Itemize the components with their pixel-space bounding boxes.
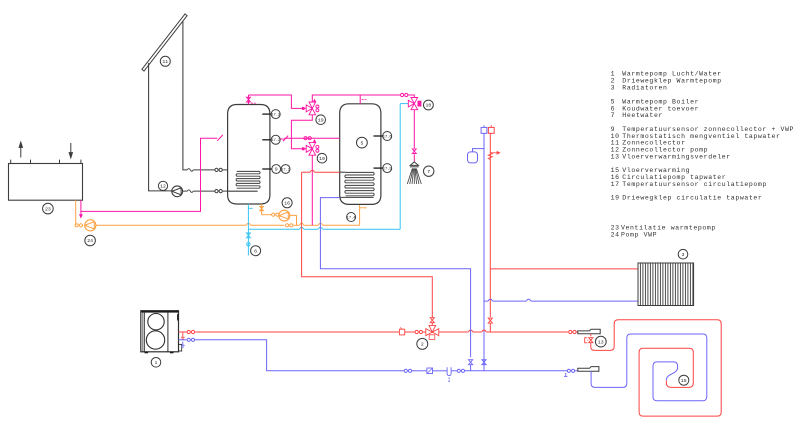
flow arrow below VWP tee bbox=[80, 211, 82, 215]
safety valve on red riser bbox=[488, 152, 492, 160]
sensor 17.3 stub bbox=[262, 113, 271, 115]
shut-off valve pair on solar return bbox=[215, 190, 218, 193]
label 1 bbox=[151, 358, 161, 368]
feet bbox=[145, 352, 149, 354]
svg-text:1: 1 bbox=[155, 360, 158, 366]
radiator 3 bbox=[638, 263, 694, 306]
svg-text:Temperatuursensor circulatiepo: Temperatuursensor circulatiepomp bbox=[622, 181, 767, 188]
label 7 bbox=[424, 166, 434, 176]
svg-text:17.1: 17.1 bbox=[281, 168, 291, 172]
valve pair before floor manifold (return) bbox=[567, 369, 570, 372]
wire VWP warm line (pink) from box to tank 1 bbox=[81, 138, 217, 211]
svg-text:13: 13 bbox=[611, 154, 620, 161]
connection box bbox=[179, 344, 182, 351]
svg-text:24: 24 bbox=[611, 231, 620, 238]
expansion vessel bbox=[468, 152, 478, 163]
label 6 bbox=[251, 246, 261, 256]
valve circle on cold water entry bbox=[247, 243, 250, 246]
blue expansion riser cap bbox=[481, 127, 487, 133]
svg-text:9: 9 bbox=[275, 167, 278, 173]
svg-text:23: 23 bbox=[45, 206, 51, 212]
wire return main to manifold bbox=[195, 340, 404, 371]
valve pair before three-way valve 2 bbox=[415, 330, 418, 333]
wire radiator return (blue) with hops bbox=[484, 300, 488, 302]
wire hot tap water top line from tank 1 bbox=[249, 95, 306, 108]
valve pair on return main bbox=[404, 369, 407, 372]
connection slash to tank 1 sensor level bbox=[217, 135, 223, 141]
shut-off valve pair on solar supply bbox=[215, 168, 218, 171]
svg-text:2: 2 bbox=[421, 342, 424, 348]
label 17.6 bbox=[383, 132, 392, 141]
circulation pump 16 tapwater bbox=[279, 210, 290, 221]
pipe flex symbol on solar supply bbox=[187, 169, 193, 172]
heat pump outdoor unit 1 bbox=[141, 311, 179, 352]
label 17.3 bbox=[271, 110, 280, 119]
svg-text:3: 3 bbox=[611, 85, 616, 92]
check valve on cold water entry bbox=[246, 233, 250, 235]
svg-text:13: 13 bbox=[598, 339, 604, 345]
svg-text:19: 19 bbox=[611, 195, 620, 202]
air out arrow bbox=[20, 143, 22, 158]
sensor 17.4 tap on orange riser bbox=[360, 207, 364, 209]
svg-text:15: 15 bbox=[681, 378, 687, 384]
sensor 17.6 stub bbox=[374, 135, 383, 137]
sensor 9 / 17.1 stub bbox=[262, 168, 272, 170]
wire cyan riser to mixing valve 10 bbox=[399, 104, 401, 230]
air in arrow bbox=[70, 143, 72, 157]
red riser cap bbox=[488, 127, 494, 133]
svg-text:19: 19 bbox=[318, 117, 324, 123]
ventilation heat pump box 23 bbox=[9, 164, 83, 201]
valve on shower line bbox=[412, 149, 416, 151]
wire circulation line from sensor 17.2 (with slash) bbox=[283, 136, 288, 142]
label 17.1 bbox=[281, 165, 290, 174]
svg-text:Warmtepomp Boiler: Warmtepomp Boiler bbox=[622, 98, 699, 105]
label 13 bbox=[595, 336, 606, 347]
valve pair on orange main bbox=[286, 224, 289, 227]
svg-text:Vloerverwarmingsverdeler: Vloerverwarmingsverdeler bbox=[622, 154, 731, 161]
svg-text:6: 6 bbox=[254, 248, 257, 254]
coil bottom connection line in tank 2 bbox=[340, 196, 374, 198]
wire blue expansion riser bbox=[483, 133, 485, 370]
svg-text:5: 5 bbox=[611, 98, 616, 105]
svg-text:11: 11 bbox=[162, 59, 168, 65]
junction red riser to main bbox=[488, 318, 492, 321]
label 19 upper bbox=[316, 115, 326, 125]
wire heating supply main from heat pump bbox=[179, 331, 187, 333]
svg-text:10: 10 bbox=[426, 103, 432, 109]
fan circle lower bbox=[146, 331, 164, 349]
wire valve 19 upper top port to hot water line bbox=[312, 95, 400, 102]
valve pair on hot water line to mixer bbox=[401, 93, 404, 96]
valve pair on circulation line bbox=[304, 137, 307, 140]
floor heating manifold supply (13) bbox=[578, 329, 600, 334]
wire floor heating supply spiral (red) bbox=[591, 320, 721, 416]
shower spray lines bbox=[407, 168, 412, 184]
pipe flex symbol on solar return bbox=[187, 190, 193, 193]
svg-text:12: 12 bbox=[160, 184, 166, 190]
wire floor heating return spiral (blue) bbox=[591, 334, 707, 401]
three-way valve 2 (driewegklep warmtepomp) bbox=[426, 329, 433, 336]
capped tee before valve 19 lower bbox=[302, 147, 305, 150]
sensor 17.2 stub bbox=[262, 139, 271, 141]
wire tank 2 top connection bbox=[359, 95, 361, 104]
fan circle upper bbox=[148, 314, 164, 330]
wire mixed water down to shower bbox=[413, 110, 415, 149]
wire radiator supply (red) bbox=[490, 268, 638, 270]
wire tank 1 top connection bbox=[248, 95, 250, 105]
label 17.4 bbox=[347, 213, 356, 222]
label 3 bbox=[678, 249, 688, 259]
wire circulation return from valve 19 lower down to orange main bbox=[311, 155, 313, 225]
label 10 bbox=[424, 100, 434, 110]
pump 24 VWP (orange) bbox=[75, 200, 77, 225]
valve on expansion riser drop bbox=[482, 360, 486, 363]
label 2 bbox=[417, 338, 428, 349]
svg-text:Heetwater: Heetwater bbox=[622, 112, 663, 119]
wire orange tap water main with hops bbox=[96, 224, 246, 226]
air vent pot on supply main bbox=[399, 329, 404, 335]
svg-text:17.3: 17.3 bbox=[271, 113, 280, 117]
label 23 bbox=[43, 203, 54, 214]
wire pump 16 outlet to orange main bbox=[290, 215, 297, 225]
svg-text:17.6: 17.6 bbox=[383, 135, 392, 139]
label 11 bbox=[160, 56, 170, 66]
svg-text:Pomp VWP: Pomp VWP bbox=[621, 231, 657, 238]
wire supply main continues to manifold bbox=[439, 331, 469, 333]
dirt separator flask on return main bbox=[447, 367, 451, 375]
label 17.5 bbox=[383, 164, 392, 173]
svg-text:Radiatoren: Radiatoren bbox=[622, 85, 667, 92]
heat exchanger coil in tank 2 bbox=[345, 172, 374, 195]
heat exchanger coil in tank 1 bbox=[236, 171, 260, 188]
sensor stub on cold water bbox=[248, 207, 252, 209]
svg-text:17: 17 bbox=[611, 181, 620, 188]
legend text bbox=[611, 71, 794, 239]
svg-text:Warmtepomp Lucht/Water: Warmtepomp Lucht/Water bbox=[622, 71, 721, 78]
label 12 bbox=[158, 181, 167, 190]
svg-text:7: 7 bbox=[427, 169, 430, 175]
svg-text:17.2: 17.2 bbox=[271, 139, 280, 143]
buffer tank 1 body bbox=[228, 105, 270, 205]
svg-text:24: 24 bbox=[87, 238, 93, 244]
svg-text:7: 7 bbox=[611, 112, 616, 119]
shower head 7 bbox=[410, 162, 418, 166]
thermostatic mixing valve 10 bbox=[411, 98, 418, 104]
three-way valve 19 lower (driewegklep circulatie) bbox=[306, 145, 312, 152]
motor valve on riser above valve 2 bbox=[430, 318, 434, 321]
wire hot water line corner into mixing valve 10 bbox=[408, 95, 414, 98]
svg-text:Driewegklep circulatie tapwate: Driewegklep circulatie tapwater bbox=[622, 195, 762, 202]
wire solar supply pipe from collector to tank 1 upper port bbox=[183, 22, 187, 170]
wire cold water entry (6) bbox=[247, 204, 249, 255]
label 17.2 bbox=[271, 135, 280, 144]
duct stubs on top of box 23 bbox=[10, 160, 12, 164]
svg-text:1: 1 bbox=[611, 71, 616, 78]
wire heating return from heat pump bbox=[179, 339, 187, 341]
sensor 17.5 stub bbox=[374, 167, 383, 169]
valve pair at heat pump return bbox=[187, 338, 190, 341]
label 15 bbox=[679, 375, 689, 385]
svg-text:17.5: 17.5 bbox=[383, 167, 392, 171]
valve pair at heat pump supply bbox=[187, 330, 190, 333]
side marking bbox=[177, 314, 178, 320]
drain stub blue bbox=[182, 342, 184, 346]
solar pump 12 bbox=[172, 186, 183, 197]
coil bottom connection line in tank 1 bbox=[228, 190, 258, 192]
label 19 lower bbox=[317, 153, 327, 163]
floor heating manifold return (13) bbox=[578, 367, 599, 372]
valve pair after flask bbox=[457, 369, 460, 372]
coil top feed line in tank 2 bbox=[340, 171, 346, 173]
solar collector panel 11 bbox=[142, 14, 187, 71]
wire valve 19 upper bottom port loop bbox=[291, 115, 312, 149]
drain tick on return main bbox=[565, 373, 567, 376]
wire tank 1 bottom to circulation pump 16 (orange) bbox=[261, 204, 263, 215]
drain stub red bbox=[182, 332, 184, 337]
capped tee before valve 19 upper bbox=[302, 107, 305, 110]
filter (square with slash) on return main bbox=[427, 368, 433, 374]
boiler tank 5 body bbox=[340, 104, 381, 205]
svg-text:19: 19 bbox=[319, 156, 325, 162]
svg-text:3: 3 bbox=[682, 252, 685, 258]
svg-text:5: 5 bbox=[360, 140, 363, 146]
wire red coil feed into tank 2 with hop over pink bbox=[302, 171, 311, 173]
three-way valve 19 upper (driewegklep circulatie) bbox=[306, 105, 312, 112]
wire red safety riser bbox=[489, 133, 491, 317]
air vent valve on tank 1 top bbox=[246, 97, 250, 99]
wire orange riser into tank 2 bottom bbox=[359, 204, 361, 225]
wire solar return pipe from tank down-leg bbox=[149, 63, 172, 191]
valve pair before floor manifold (supply) bbox=[569, 330, 572, 333]
wire blue return from tank 2 coil bbox=[320, 198, 470, 358]
valve on blue drop bbox=[468, 360, 472, 363]
svg-text:16: 16 bbox=[284, 201, 290, 207]
label 9 bbox=[272, 165, 281, 174]
wire cold water main (cyan) bbox=[248, 228, 299, 230]
label 16 bbox=[282, 198, 292, 208]
svg-text:17.4: 17.4 bbox=[347, 216, 357, 220]
zone valve under manifold 13 bbox=[590, 334, 592, 337]
wire red riser from valve 2 to tank 2 coil bbox=[302, 172, 433, 318]
label 24 bbox=[85, 235, 96, 246]
wire pump 12 to tank 1 lower port bbox=[182, 190, 187, 192]
label 5 bbox=[357, 137, 368, 148]
